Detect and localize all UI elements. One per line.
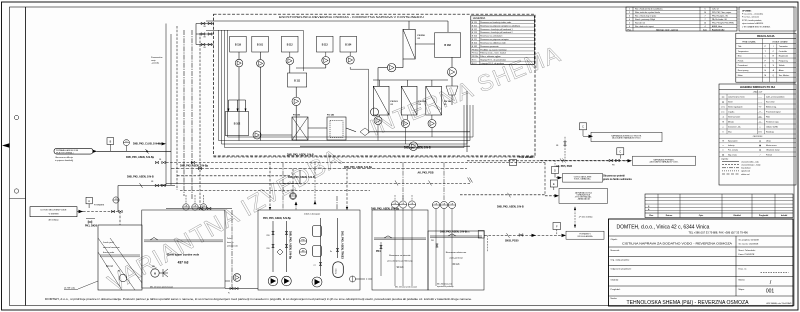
svg-text:▣: ▣ bbox=[759, 144, 761, 147]
svg-text:Jasek pred: Jasek pred bbox=[103, 241, 114, 244]
svg-text:Lokal merjeno mesto: Lokal merjeno mesto bbox=[728, 96, 745, 99]
svg-text:Tlak: Tlak bbox=[738, 46, 742, 48]
svg-text:FN 192: FN 192 bbox=[419, 101, 427, 103]
svg-text:C: C bbox=[619, 151, 621, 154]
svg-text:48 m3/dan: 48 m3/dan bbox=[48, 220, 59, 222]
svg-text:DN1, PK5, ASEN, TRKE3: DN1, PK5, ASEN, TRKE3 bbox=[341, 231, 344, 259]
svg-text:signalni vod: signalni vod bbox=[741, 171, 750, 173]
svg-text:OPOMBE:: OPOMBE: bbox=[742, 11, 752, 13]
svg-text:vode-permeat: vode-permeat bbox=[449, 257, 463, 260]
svg-text:Sev. Meritev: Sev. Meritev bbox=[779, 74, 789, 77]
svg-text:Obdelal: Obdelal bbox=[733, 215, 741, 217]
svg-text:Prirobnicni spoj: Prirobnicni spoj bbox=[766, 122, 779, 124]
svg-text:Razel - povisanje 10/tipl: Razel - povisanje 10/tipl bbox=[635, 18, 656, 21]
svg-text:DN5, PK5, ASEN, S-N-Bp: DN5, PK5, ASEN, S-N-Bp bbox=[180, 165, 209, 168]
svg-text:FN 350: FN 350 bbox=[418, 35, 426, 37]
svg-text:≡: ≡ bbox=[722, 144, 723, 147]
svg-text:B 113: B 113 bbox=[322, 44, 329, 46]
svg-text:Rocni Vod: Rocni Vod bbox=[766, 102, 774, 104]
svg-text:F na nivo - armature: F na nivo - armature bbox=[742, 16, 759, 19]
svg-text:Transmiter: Transmiter bbox=[779, 45, 788, 48]
svg-text:Pregledal:: Pregledal: bbox=[611, 288, 621, 291]
svg-text:DN5, PK5, ASEN, S-N-B: DN5, PK5, ASEN, S-N-B bbox=[497, 206, 524, 209]
svg-text:Rez. vhoda (enin) ob v podtlac: Rez. vhoda (enin) ob v podtlacku bbox=[635, 8, 663, 11]
svg-text:Bo: Bo bbox=[118, 271, 120, 273]
svg-text:Controller: Controller bbox=[779, 50, 788, 53]
svg-text:TL,E m3/dan: TL,E m3/dan bbox=[519, 156, 534, 159]
svg-text:- povisba: - povisba bbox=[151, 63, 160, 65]
svg-text:LEGENDA SIMBOLOV PO ISA: LEGENDA SIMBOLOV PO ISA bbox=[740, 86, 776, 89]
svg-text:VODE - KANALIZAC.: VODE - KANALIZAC. bbox=[574, 178, 592, 181]
svg-text:-=[]=-: -=[]=- bbox=[758, 117, 763, 119]
svg-text:VB: VB bbox=[159, 159, 161, 161]
svg-text:Prehod: Prehod bbox=[766, 154, 772, 156]
svg-text:DN5, PK5, ASEN, S-N-Bp: DN5, PK5, ASEN, S-N-Bp bbox=[344, 166, 373, 169]
svg-text:Filter: Filter bbox=[766, 116, 770, 119]
svg-text:60 m3: 60 m3 bbox=[106, 265, 113, 268]
svg-text:PK5, PM, 7 bar, nerjav.: PK5, PM, 7 bar, nerjav. bbox=[712, 11, 732, 14]
svg-text:elektro vod: elektro vod bbox=[741, 173, 749, 176]
svg-text:JM: JM bbox=[302, 250, 305, 252]
svg-text:Kras. st.:: Kras. st.: bbox=[739, 268, 748, 271]
svg-text:F vsa cevna - cevovodna: F vsa cevna - cevovodna bbox=[742, 14, 764, 16]
svg-text:in pripravo kemikalij): in pripravo kemikalij) bbox=[55, 160, 74, 162]
svg-text:B 119: B 119 bbox=[235, 44, 242, 46]
svg-text:Jedoh za dovajanje: Jedoh za dovajanje bbox=[304, 213, 320, 215]
svg-text:PK1, DK50: PK1, DK50 bbox=[85, 225, 98, 228]
svg-text:Odtok v tla/NN: Odtok v tla/NN bbox=[766, 126, 778, 129]
svg-text:ENOSTOPENJSKA REVERZNA OSMOZ: ENOSTOPENJSKA REVERZNA OSMOZA - KOMPAKTN… bbox=[279, 15, 424, 19]
svg-text:PK1: PK1 bbox=[376, 250, 381, 253]
svg-text:437 m3: 437 m3 bbox=[178, 261, 189, 265]
svg-text:vijacni material v AISI316: vijacni material v AISI316 bbox=[742, 22, 763, 25]
svg-text:SK05, PG50: SK05, PG50 bbox=[505, 240, 519, 243]
svg-text:Prevodnost: Prevodnost bbox=[738, 64, 748, 67]
svg-text:Rezervoar za retentat-: Rezervoar za retentat- bbox=[389, 254, 411, 257]
svg-text:Filter, tanki din a polsin kla: Filter, tanki din a polsin klavlin bbox=[635, 11, 660, 14]
svg-text:B 111: B 111 bbox=[294, 80, 301, 82]
svg-text:Rez. dodo rek v izpust: Rez. dodo rek v izpust bbox=[635, 25, 654, 28]
svg-text:D: D bbox=[554, 169, 556, 172]
svg-text:FM: FM bbox=[302, 239, 305, 241]
svg-text:Instrument - lok.: Instrument - lok. bbox=[728, 126, 741, 129]
svg-text:Rez. vrhovla maj in tipalo: Rez. vrhovla maj in tipalo bbox=[635, 15, 656, 18]
svg-text:C: C bbox=[582, 126, 584, 129]
svg-text:Obdelal:: Obdelal: bbox=[611, 280, 620, 282]
svg-text:—O→: —O→ bbox=[757, 112, 762, 114]
svg-text:DN5, PK5, ASEN, S-N-Bp: DN5, PK5, ASEN, S-N-Bp bbox=[289, 231, 292, 260]
svg-text:gnelo na faziko sedimenta: gnelo na faziko sedimenta bbox=[603, 178, 632, 181]
svg-text:PA, Rn biudo - 80: PA, Rn biudo - 80 bbox=[712, 18, 727, 21]
svg-text:DOMTEH, d.o.o., Vinica 42 c, 6: DOMTEH, d.o.o., Vinica 42 c, 6344 Vinica bbox=[617, 225, 710, 231]
svg-text:Rev.: Rev. bbox=[649, 215, 654, 217]
svg-text:kom: kom bbox=[703, 30, 707, 32]
svg-text:DN5, PK5, ASEN, S-N-Bp: DN5, PK5, ASEN, S-N-Bp bbox=[126, 156, 155, 159]
svg-text:Povezovalne: Povezovalne bbox=[151, 57, 163, 59]
svg-text:Rezi din rek: Rezi din rek bbox=[635, 21, 645, 24]
svg-text:Pv: Pv bbox=[228, 293, 230, 295]
svg-text:kabli - prenos podatkov: kabli - prenos podatkov bbox=[766, 96, 785, 99]
svg-text:Frequency: Frequency bbox=[779, 59, 788, 62]
svg-text:ASEN, blow: ASEN, blow bbox=[712, 25, 723, 28]
svg-text:PK1: PK1 bbox=[431, 240, 434, 242]
svg-text:B 182: B 182 bbox=[444, 44, 451, 47]
svg-text:B 104: B 104 bbox=[345, 43, 352, 46]
svg-text:Pos. oznaka: Pos. oznaka bbox=[728, 150, 738, 152]
svg-text:preusmerjena po filtriranju: preusmerjena po filtriranju bbox=[387, 260, 413, 263]
svg-text:LEGENDA: LEGENDA bbox=[473, 16, 486, 20]
svg-text:+P 34,5 m3/dan: +P 34,5 m3/dan bbox=[579, 217, 593, 219]
svg-text:V SISTEM: V SISTEM bbox=[49, 213, 59, 215]
svg-text:Objekt:: Objekt: bbox=[611, 238, 618, 241]
svg-text:Legenda:: Legenda: bbox=[721, 159, 729, 161]
svg-text:meja dobave: meja dobave bbox=[741, 168, 751, 170]
svg-text:Rezervoar odziscene: Rezervoar odziscene bbox=[446, 251, 467, 254]
svg-text:DOTOK SECOVSKE VODE: DOTOK SECOVSKE VODE bbox=[41, 210, 67, 212]
svg-text:FN 161: FN 161 bbox=[391, 101, 399, 103]
svg-text:Stikalo: Stikalo bbox=[779, 64, 785, 67]
svg-text:DN5, PK5, C (AB, S-N-B): DN5, PK5, C (AB, S-N-B) bbox=[133, 143, 161, 146]
svg-text:|><|: |><| bbox=[721, 106, 725, 109]
svg-text:90 m3: 90 m3 bbox=[397, 266, 404, 269]
svg-text:Temperatura: Temperatura bbox=[738, 50, 750, 53]
svg-text:B 102: B 102 bbox=[234, 123, 241, 126]
svg-text:|>o: |>o bbox=[722, 111, 725, 114]
svg-text:L TE OZNAKE NISO V LEGENDI.: L TE OZNAKE NISO V LEGENDI. bbox=[742, 25, 771, 28]
svg-text:Ventil: Ventil bbox=[728, 101, 733, 104]
svg-text:Merilo:: Merilo: bbox=[739, 279, 746, 282]
svg-text:Pregledal: Pregledal bbox=[759, 214, 769, 217]
svg-text:▤: ▤ bbox=[722, 153, 724, 156]
svg-text:Opis/opr. naziv - oprema: Opis/opr. naziv - oprema bbox=[656, 30, 679, 32]
svg-text:POVRATEK: POVRATEK bbox=[94, 204, 105, 207]
svg-text:Redukcija: Redukcija bbox=[766, 132, 774, 134]
svg-text:ZA DODATNO NAPAJALNO VODO.: ZA DODATNO NAPAJALNO VODO. bbox=[650, 161, 679, 164]
svg-text:Naslov:: Naslov: bbox=[611, 298, 618, 300]
svg-text:——: —— bbox=[758, 97, 762, 99]
svg-text:Karakteristike: Karakteristike bbox=[712, 29, 725, 32]
svg-text:Min. 25 kotan pred izsusam: Min. 25 kotan pred izsusam bbox=[150, 286, 174, 289]
svg-text:Elektricni sig.: Elektricni sig. bbox=[766, 106, 777, 109]
svg-text:PK5, PK5, ASEN, S-N-Bp: PK5, PK5, ASEN, S-N-Bp bbox=[263, 217, 291, 220]
svg-text:B 101: B 101 bbox=[257, 44, 264, 46]
svg-text:KROG.HLAJENJA: KROG.HLAJENJA bbox=[578, 235, 594, 238]
svg-text:zbirnim bazenom: zbirnim bazenom bbox=[103, 246, 120, 249]
svg-text:Spoj varjeni: Spoj varjeni bbox=[728, 141, 738, 143]
svg-text:Zbirni bazen Izcedne vode: Zbirni bazen Izcedne vode bbox=[167, 253, 200, 257]
svg-text:Nap. enota: Nap. enota bbox=[728, 153, 737, 156]
svg-text:Poz.: Poz. bbox=[628, 30, 632, 32]
svg-text:Obcasno-po potrebi: Obcasno-po potrebi bbox=[603, 175, 625, 178]
svg-text:DN5, PK5, ASEN, S-N-B: DN5, PK5, ASEN, S-N-B bbox=[440, 230, 467, 233]
svg-text:ZA DODATNO NAPAJALNO VODO.: ZA DODATNO NAPAJALNO VODO. bbox=[612, 137, 641, 140]
svg-text:001: 001 bbox=[766, 289, 775, 295]
svg-text:—||—: —||— bbox=[758, 122, 763, 124]
svg-text:Nivo: Nivo bbox=[728, 132, 732, 134]
svg-text:VT: VT bbox=[314, 265, 316, 267]
svg-text:DN5, PK5, ASEN, S-N-B: DN5, PK5, ASEN, S-N-B bbox=[287, 154, 314, 157]
svg-text:Pnevmatski signal: Pnevmatski signal bbox=[766, 111, 781, 114]
svg-text:Obcasno-za dillucijo: Obcasno-za dillucijo bbox=[55, 157, 74, 159]
svg-text:cevovod izvedba - voda: cevovod izvedba - voda bbox=[741, 161, 759, 163]
svg-text:DN2, PK5, ASEN, S-N-B: DN2, PK5, ASEN, S-N-B bbox=[404, 146, 431, 149]
svg-text:Nivo: Nivo bbox=[738, 56, 742, 58]
svg-text:Hidrofor: Hidrofor bbox=[336, 268, 338, 274]
svg-text:Ventil varnostni: Ventil varnostni bbox=[728, 116, 741, 119]
svg-text:PRIPRAVA HLADILNE VODE: PRIPRAVA HLADILNE VODE bbox=[56, 149, 79, 152]
svg-text:tlacne vode: tlacne vode bbox=[103, 251, 115, 254]
svg-text:TEHNOLOSKA SHEMA (P&I) -: TEHNOLOSKA SHEMA (P&I) - REVERZNA OSMOZA bbox=[627, 300, 750, 306]
svg-text:60 m3: 60 m3 bbox=[453, 263, 460, 266]
svg-text:⊳⊲: ⊳⊲ bbox=[758, 131, 762, 134]
svg-text:Ventil, regulacijski: Ventil, regulacijski bbox=[728, 106, 743, 109]
svg-text:PRVA OZNAKA: PRVA OZNAKA bbox=[742, 40, 756, 43]
svg-text:Rocni poseg: Rocni poseg bbox=[738, 70, 749, 72]
svg-text:OSTALE OZNAKE: OSTALE OZNAKE bbox=[772, 40, 788, 43]
svg-text:Mesto vzorca: Mesto vzorca bbox=[766, 144, 777, 147]
svg-text:Org. vodja projekta:: Org. vodja projekta: bbox=[611, 259, 630, 262]
svg-text:FG 140: FG 140 bbox=[327, 114, 335, 117]
svg-text:Motor: Motor bbox=[738, 74, 743, 77]
svg-text:Odgovorni projektant:: Odgovorni projektant: bbox=[611, 268, 632, 271]
svg-text:Pretok: Pretok bbox=[738, 59, 744, 62]
svg-text:Mapa:: Mapa: bbox=[739, 289, 745, 291]
svg-text:Crpalka: Crpalka bbox=[728, 112, 734, 114]
svg-text:AK, PK5, PGB: AK, PK5, PGB bbox=[418, 172, 434, 175]
svg-text:TEL +386 (0)7 33 79 888, FAX +: TEL +386 (0)7 33 79 888, FAX +386 (0)7 3… bbox=[689, 231, 749, 235]
svg-text:Nacrt: Tehnoloski: Nacrt: Tehnoloski bbox=[739, 249, 756, 252]
svg-text:prelivanje vode: prelivanje vode bbox=[227, 246, 238, 248]
svg-text:St. nacrta: 202/2008: St. nacrta: 202/2008 bbox=[739, 243, 759, 246]
svg-text:Faza: PGD/PZR: Faza: PGD/PZR bbox=[739, 254, 755, 256]
svg-text:Izdelal: Izdelal bbox=[781, 215, 788, 217]
svg-text:Min. 25 kotan pred izsusam: Min. 25 kotan pred izsusam bbox=[395, 286, 417, 289]
svg-text:Ro: Ro bbox=[330, 251, 332, 253]
svg-text:DN5, PK5, ASEN, S-N-B: DN5, PK5, ASEN, S-N-B bbox=[127, 176, 154, 179]
svg-text:cevovod obstojeci - mediji: cevovod obstojeci - mediji bbox=[741, 164, 761, 167]
svg-text:▮: ▮ bbox=[759, 149, 760, 152]
svg-text:F PK5, tesnila prirobnic,: F PK5, tesnila prirobnic, bbox=[742, 19, 763, 22]
svg-text:o|o: o|o bbox=[722, 97, 725, 99]
svg-text:Mesalo: Mesalo bbox=[728, 122, 734, 124]
svg-text:- KANALIZACIJA: - KANALIZACIJA bbox=[577, 198, 591, 201]
svg-text:Ukrep: Ukrep bbox=[766, 141, 771, 143]
svg-text:Obratoval. stanje: Obratoval. stanje bbox=[766, 149, 780, 152]
svg-text:B 112: B 112 bbox=[287, 44, 294, 46]
svg-text:DN5, PK5, ASEN, S-N-B: DN5, PK5, ASEN, S-N-B bbox=[288, 176, 315, 179]
svg-text:Narocnik:: Narocnik: bbox=[611, 249, 621, 252]
svg-text:REGULACIJA: REGULACIJA bbox=[757, 34, 775, 38]
svg-text:-T-: -T- bbox=[722, 117, 725, 119]
svg-text:FN 18x: FN 18x bbox=[444, 101, 452, 103]
svg-text:Izolacija: Izolacija bbox=[728, 145, 735, 147]
svg-text:Registrator: Registrator bbox=[779, 55, 789, 58]
svg-text:CISTILNA NAPRAVA ZA DODATNO VO: CISTILNA NAPRAVA ZA DODATNO VODO - REVER… bbox=[622, 242, 732, 246]
svg-text:CEVOVODI: CEVOVODI bbox=[753, 136, 763, 138]
svg-text:— —: — — bbox=[758, 102, 762, 104]
svg-text:izpustam ali prelivanje: izpustam ali prelivanje bbox=[437, 285, 454, 288]
svg-text:Datum: Datum bbox=[666, 214, 673, 217]
svg-text:bazen za: bazen za bbox=[227, 242, 234, 244]
svg-text:FG 130: FG 130 bbox=[293, 115, 301, 117]
svg-text:Alarm: Alarm bbox=[779, 69, 784, 72]
svg-text:St. projekta: 02/2008: St. projekta: 02/2008 bbox=[739, 239, 760, 242]
svg-text:DOMTEH, d.o.o., si pridrzuje p: DOMTEH, d.o.o., si pridrzuje pravice iz … bbox=[45, 298, 472, 301]
svg-text:Preliv v: Preliv v bbox=[227, 238, 232, 240]
